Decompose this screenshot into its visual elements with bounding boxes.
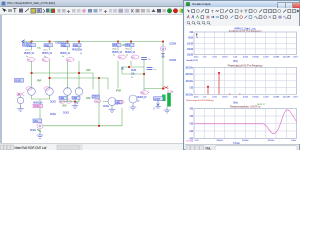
label T1 name <box>27 44 36 48</box>
transistor T6 <box>44 87 53 99</box>
transistor T7 <box>59 88 71 104</box>
ground GND_UOUT <box>156 106 161 108</box>
svg-text:DCKG: DCKG <box>15 80 21 83</box>
svg-text:Phase [deg] of UOUT vs Frequen: Phase [deg] of UOUT vs Frequency <box>228 64 264 68</box>
wire bottom rail <box>43 108 122 126</box>
svg-text:250.00u: 250.00u <box>216 140 223 142</box>
ground GND_VG1 <box>37 133 43 138</box>
transistor T12 <box>129 91 149 106</box>
svg-text:PMOS_W: PMOS_W <box>60 51 71 55</box>
transistor T11 oval right <box>118 100 124 103</box>
wire comp node <box>143 60 145 91</box>
svg-text:10.00: 10.00 <box>212 96 217 98</box>
chart3 grid <box>194 109 297 139</box>
label VDD net <box>23 43 32 47</box>
node VDD junction J6 <box>130 41 132 43</box>
svg-text:PMOS_W: PMOS_W <box>125 50 136 54</box>
svg-text:-50.00: -50.00 <box>188 38 194 40</box>
wire drop T2 <box>49 42 51 88</box>
node VDD junction J7 <box>162 41 164 43</box>
svg-text:GND: GND <box>62 106 67 108</box>
node junction RC <box>128 66 130 68</box>
svg-text:10.00M: 10.00M <box>273 96 279 98</box>
svg-text:7.7u: 7.7u <box>37 48 41 50</box>
capacitor C1 <box>147 68 157 72</box>
svg-text:1.2p: 1.2p <box>153 69 157 71</box>
svg-text:WKP: WKP <box>86 70 91 72</box>
capacitor C2 <box>142 58 152 62</box>
svg-text:PMOS_W: PMOS_W <box>42 51 53 55</box>
svg-text:Gain:A(UOUT): Gain:A(UOUT) <box>186 59 198 62</box>
label T4 name <box>73 44 81 48</box>
svg-text:1.00k: 1.00k <box>233 57 238 59</box>
source VG1 <box>30 119 43 133</box>
chart2 x labels <box>194 96 298 98</box>
svg-text:1u: 1u <box>126 54 129 56</box>
node junction S1 <box>74 101 76 103</box>
svg-text:200.00m: 200.00m <box>185 74 193 76</box>
svg-text:-150.00: -150.00 <box>187 49 194 51</box>
svg-text:72: 72 <box>76 102 79 105</box>
svg-text:Main /Tst1 RGR CMT Lst/: Main /Tst1 RGR CMT Lst/ <box>15 146 47 150</box>
wire tail bus <box>98 78 100 126</box>
svg-text:V: V <box>153 107 155 111</box>
label CL value red <box>164 87 168 89</box>
svg-text:f (Hz): f (Hz) <box>233 101 238 104</box>
ground GND_VB1 <box>18 106 24 112</box>
svg-text:2.00: 2.00 <box>189 116 194 118</box>
node VDD junction J4 <box>78 41 80 43</box>
svg-text:DCKG: DCKG <box>103 105 109 108</box>
meter UOUT <box>153 97 163 111</box>
label T11 gate <box>92 95 100 99</box>
svg-text:4.00: 4.00 <box>189 109 194 111</box>
chart1 y labels <box>187 32 194 57</box>
node VDD junction J1 <box>31 41 33 43</box>
svg-text:IPWR: IPWR <box>116 91 121 93</box>
svg-text:DCKG: DCKG <box>50 113 56 116</box>
svg-text:Mai...: Mai... <box>206 146 212 150</box>
svg-text:Phase margin of UOUT: 89.66 de: Phase margin of UOUT: 89.66 deg <box>186 99 214 102</box>
label T2 name <box>44 44 53 48</box>
svg-text:10.00: 10.00 <box>212 57 217 59</box>
label DCKG left <box>15 79 24 83</box>
svg-text:100.00: 100.00 <box>222 57 228 59</box>
node VDD junction J2 <box>49 41 51 43</box>
transistor T2 <box>42 50 53 62</box>
svg-text:WKP: WKP <box>86 98 91 100</box>
svg-text:RC: RC <box>121 68 124 71</box>
svg-text:1.00G: 1.00G <box>293 96 298 98</box>
wire T7T8 source join <box>60 101 79 103</box>
svg-text:PMOS_W: PMOS_W <box>72 48 83 52</box>
node junction bottom <box>98 125 100 127</box>
svg-text:-2.00: -2.00 <box>189 131 194 133</box>
transistor T3 <box>60 51 74 62</box>
wire drop T9 <box>117 42 119 89</box>
svg-text:0.00: 0.00 <box>189 124 194 126</box>
svg-text:DCKG: DCKG <box>93 96 99 99</box>
chart2 grid <box>194 67 297 94</box>
svg-text:10.00k: 10.00k <box>243 96 249 98</box>
svg-text:100.00M: 100.00M <box>283 96 290 98</box>
chart3 y labels <box>189 109 194 141</box>
svg-text:300.00m: 300.00m <box>185 67 193 69</box>
chart3 waveform <box>194 110 297 134</box>
wire tail VG1 <box>32 99 50 120</box>
node VDD junction J5 <box>117 41 119 43</box>
ground GND_CL <box>164 109 170 113</box>
capacitor CL selected <box>162 93 171 107</box>
svg-text:PMP: PMP <box>37 81 42 83</box>
node junction OUT <box>162 88 164 90</box>
transistor T1 <box>24 50 35 62</box>
transistor T4 <box>72 48 83 56</box>
svg-text:750.00u: 750.00u <box>268 140 275 142</box>
svg-text:100.00m: 100.00m <box>185 81 193 83</box>
node junction B2 <box>98 77 100 79</box>
svg-text:0.00: 0.00 <box>189 88 194 90</box>
chart3 x labels <box>195 140 297 142</box>
svg-text:100.00: 100.00 <box>222 96 228 98</box>
svg-text:NMOS_W: NMOS_W <box>33 102 43 105</box>
svg-text:CDOM: CDOM <box>169 58 176 62</box>
transistor T9 <box>112 43 126 59</box>
svg-text:1u: 1u <box>137 100 140 103</box>
svg-text:1.00G: 1.00G <box>293 57 298 59</box>
svg-text:UOUT: UOUT <box>154 98 161 101</box>
wire mid bus A <box>32 73 94 89</box>
svg-text:f (Hz): f (Hz) <box>233 60 238 63</box>
svg-text:0.00: 0.00 <box>189 32 194 34</box>
svg-text:10.00M: 10.00M <box>273 57 279 59</box>
transistor T5 <box>26 87 35 99</box>
svg-text:DCKG: DCKG <box>30 129 36 132</box>
svg-text:10.00k: 10.00k <box>243 57 249 59</box>
node junction RC2 <box>143 73 145 75</box>
svg-text:100m: 100m <box>194 96 199 98</box>
svg-text:UOUT 1.7: UOUT 1.7 <box>257 104 266 106</box>
svg-text:2k: 2k <box>131 77 134 79</box>
svg-text:PMOS_W: PMOS_W <box>24 51 35 55</box>
ground GND_S1 <box>72 102 78 109</box>
svg-text:1.00k: 1.00k <box>233 96 238 98</box>
source I1 <box>160 43 165 88</box>
node junction A1 <box>31 72 33 74</box>
wire drop T3 <box>67 42 69 90</box>
chart1 curve <box>196 35 199 39</box>
svg-text:100.00k: 100.00k <box>252 57 259 59</box>
chart1 grid <box>194 32 297 55</box>
node VDD junction J3 <box>67 41 69 43</box>
wire drop T1 <box>31 42 33 88</box>
svg-text:1.2p: 1.2p <box>148 59 152 61</box>
wire CL ground <box>166 107 168 110</box>
resistor RC <box>121 68 137 80</box>
svg-text:1.00m: 1.00m <box>291 140 296 142</box>
svg-text:75.36m: 75.36m <box>34 104 41 108</box>
wire VDD rail <box>22 40 163 43</box>
node junction B1 <box>49 77 51 79</box>
svg-text:1u: 1u <box>80 53 83 55</box>
svg-text:100m: 100m <box>194 57 199 59</box>
svg-text:CDOM: CDOM <box>169 42 176 46</box>
svg-text:500.00u: 500.00u <box>242 140 249 142</box>
wire RC comp <box>122 67 144 74</box>
chart1 x labels <box>194 57 298 59</box>
wire drop T4 <box>78 42 80 90</box>
chart2 spikes <box>208 73 219 94</box>
svg-text:PMOS_W: PMOS_W <box>112 50 123 54</box>
svg-text:100.00M: 100.00M <box>283 57 290 59</box>
ground GND_T11 <box>109 108 115 113</box>
svg-text:1.00: 1.00 <box>203 57 207 59</box>
ground GND_T12 <box>130 106 136 111</box>
label T3 name <box>61 44 70 48</box>
wire out node <box>144 88 163 90</box>
svg-text:1u: 1u <box>62 56 65 58</box>
svg-text:100.00k: 100.00k <box>252 96 259 98</box>
transistor T8 <box>66 88 83 104</box>
svg-text:1.00M: 1.00M <box>263 57 268 59</box>
label NM1 <box>115 100 122 104</box>
svg-text:1u: 1u <box>113 54 116 56</box>
svg-text:1.00M: 1.00M <box>263 96 268 98</box>
node junction A2 <box>78 72 80 74</box>
svg-text:DCKG: DCKG <box>50 101 56 104</box>
wire mid bus B <box>50 78 109 89</box>
svg-text:-100.00m: -100.00m <box>185 94 193 96</box>
svg-text:1.00: 1.00 <box>203 96 207 98</box>
chart2 y labels <box>185 67 194 96</box>
transistor T11 <box>86 98 118 109</box>
svg-text:0.00: 0.00 <box>195 140 199 142</box>
svg-text:DCKG: DCKG <box>63 112 69 115</box>
source VB1 <box>17 93 25 107</box>
svg-text:-100.00: -100.00 <box>187 43 194 45</box>
wire drop T10 <box>130 42 132 67</box>
svg-text:UOUT(t): UOUT(t) <box>186 139 193 142</box>
transistor T10 <box>125 43 139 59</box>
label T5 values <box>33 102 43 109</box>
